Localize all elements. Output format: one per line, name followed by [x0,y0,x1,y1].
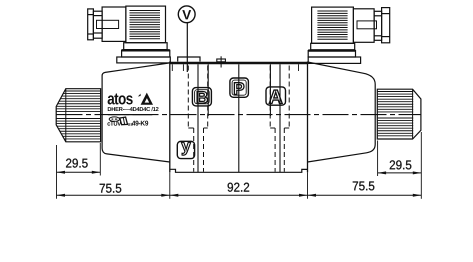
left connector base plate 2 (thick top) [122,50,170,57]
short hidden ticks below top edge [172,64,298,71]
dimension 92.2 [170,194,308,197]
right nut knurl hatch [378,92,414,136]
left connector base plate 3 [117,57,171,63]
left connector housing [126,6,166,43]
B column dashed bore outer [188,66,207,129]
A column solid bore line [279,64,281,172]
dimension text 29.5 left [66,159,88,168]
B column bore step [188,127,207,129]
B column second solid line [207,64,209,116]
dimension 75.5 left [57,194,170,197]
extension line left nut end [56,145,58,199]
extension line right nut inner [377,141,379,177]
leader line from V [186,23,188,72]
B column solid bore line [197,64,199,172]
valve body left edge [169,62,171,173]
dimension text 29.5 right [390,160,412,169]
dimension text 75.5 right [353,181,375,190]
extension line right nut end [420,132,422,199]
valve body right edge [307,62,309,173]
B column dashed bore inner [194,128,204,172]
dimension 29.5 right [378,171,422,174]
right connector base plate 3 [308,57,360,63]
indicator circle V [178,6,195,23]
top plug symbol [217,56,226,67]
valve body bottom edge with feet [170,169,308,172]
right connector housing ribs [317,11,347,39]
right connector gland body [353,9,376,43]
left connector gland body [97,7,126,41]
port label A [266,87,286,105]
port label P [230,78,249,97]
right connector base plate 2 (thick top) [308,51,355,57]
A column second solid line [269,64,271,116]
right solenoid coil outline [308,62,376,162]
coil small print row [108,107,159,111]
left connector cable gland cap segment 2 [93,11,102,38]
atos logo [108,93,153,105]
body top tab [178,57,200,62]
center line dash-dot [57,114,422,116]
A column bore step [270,127,289,129]
right connector housing [312,7,354,43]
right connector base plate 1 [311,43,355,50]
left nut knurl hatch [57,91,101,139]
dimension 29.5 left [57,171,101,174]
extension line body left [169,172,171,199]
valve body top edge (thick) [170,62,308,65]
port label B [192,88,211,106]
P column solid center line [238,64,240,172]
right connector gland cap segment 2 [374,11,382,40]
left connector base plate 1 [124,43,167,50]
extension line body right [307,172,309,199]
dimension text 92.2 [228,183,250,192]
A column dashed bore inner [275,128,284,172]
left solenoid coil outline [102,63,170,162]
port label Y [177,141,194,158]
left connector cable gland cap segment 1 [88,9,94,40]
dimension text 75.5 left [100,184,122,193]
extension line left nut inner [99,143,101,176]
left connector housing ribs [130,11,161,39]
left knurled nut [56,89,100,142]
dimension 75.5 right [308,194,422,197]
coil certification marks [107,117,148,126]
right knurled nut [377,89,421,139]
right connector gland cap segment 1 [382,8,390,43]
A column dashed bore outer [270,66,289,129]
